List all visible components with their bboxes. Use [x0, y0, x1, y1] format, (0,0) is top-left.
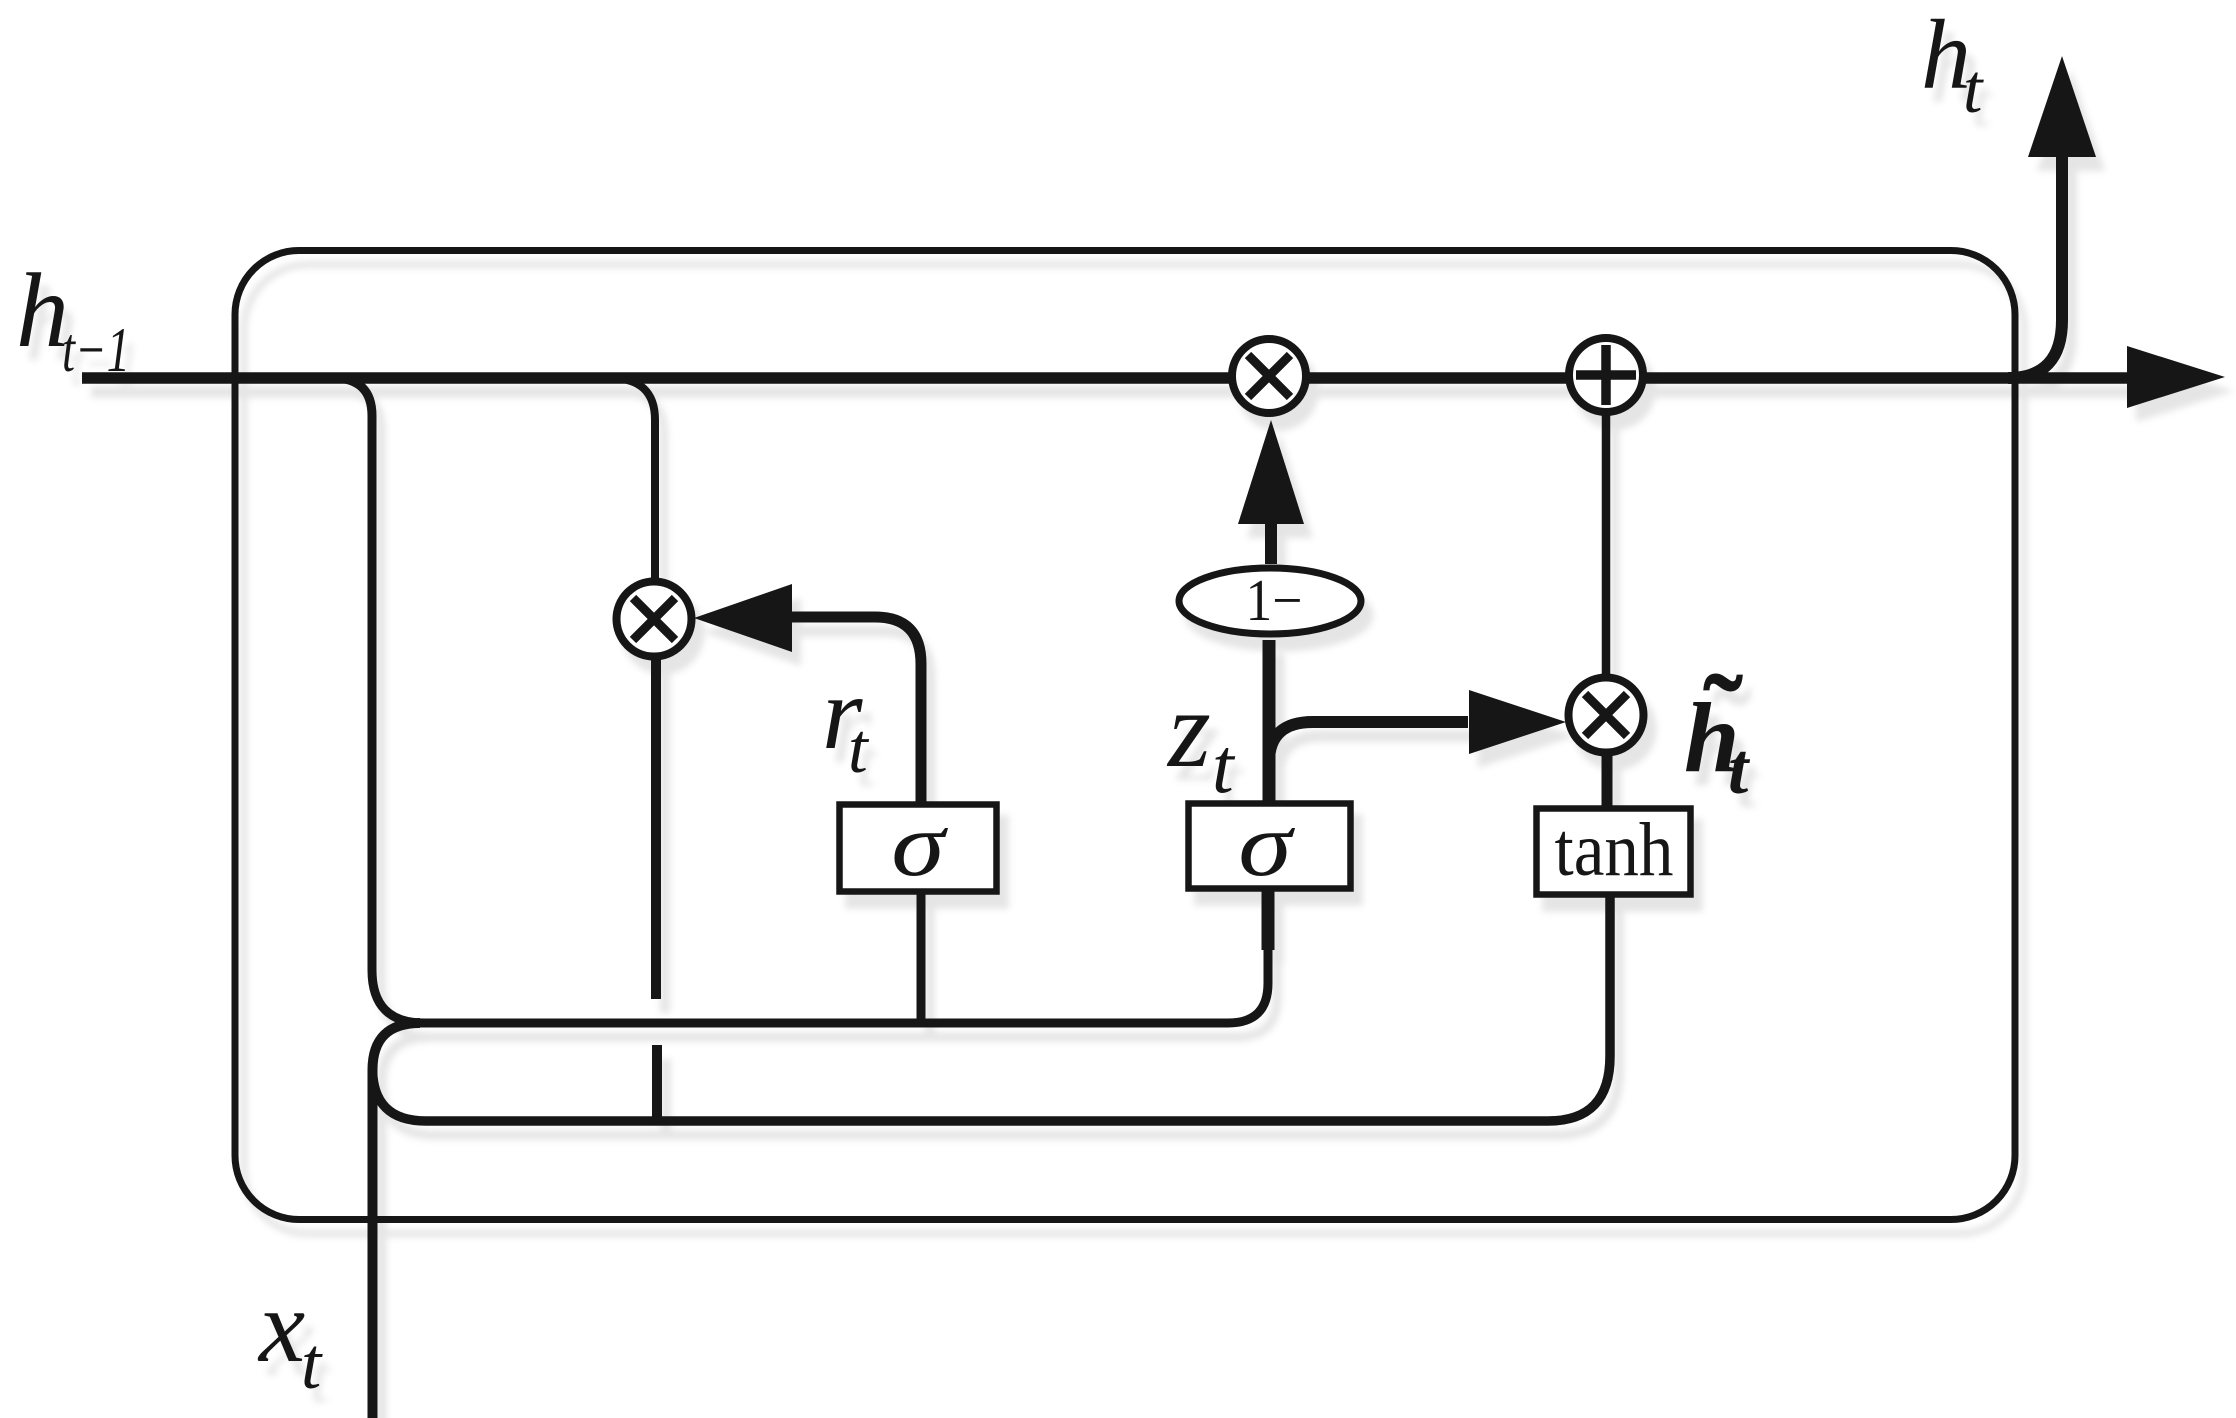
wire: riser from line 1 into reset sigma — [917, 892, 926, 1023]
wire: z_t branch to candidate multiply — [1269, 722, 1468, 762]
wire: interior line 1 feeding sigma gates — [420, 950, 1268, 1023]
wire: x_t input vertical — [373, 1023, 421, 1418]
wire: connector add-circle down to candidate multiply — [1602, 413, 1611, 679]
wire: h(t-1) main recurrent line — [82, 372, 2127, 384]
wire: interior line 2 feeding tanh — [426, 894, 1610, 1121]
wire: h(t-1)/x_t shared branch down into interior line 1 — [333, 378, 424, 1023]
node: reset multiply circle — [617, 582, 692, 657]
svg-text:x: x — [257, 1269, 305, 1384]
svg-text:t−1: t−1 — [62, 314, 130, 385]
wire: z_t thick line from update sigma up to 1- ellipse — [1263, 640, 1276, 806]
svg-text:t: t — [1728, 728, 1751, 809]
GRU cell body (rounded rectangle) — [235, 251, 2015, 1220]
wire: reset product stub (hops over line 1) — [651, 656, 661, 999]
wire: h_t output riser — [2008, 156, 2062, 378]
svg-text:σ: σ — [1238, 794, 1295, 895]
wire: reset product stub into line 2 — [652, 1045, 662, 1119]
svg-text:tanh: tanh — [1555, 808, 1674, 892]
node: update multiply circle on main line — [1232, 339, 1306, 413]
wire: r_t output from reset sigma, curving left — [791, 617, 921, 808]
arrowhead: h(t-1) line output right — [2127, 346, 2225, 408]
wire: h(t-1) branch down to reset multiply — [610, 378, 655, 582]
svg-text:t: t — [1963, 51, 1984, 128]
box: update gate sigma — [1189, 804, 1351, 889]
svg-text:t: t — [301, 1323, 323, 1404]
wire: x_t branch into line 2 — [373, 1068, 427, 1121]
box: reset gate sigma — [840, 805, 997, 892]
arrowhead: r_t into reset multiply — [694, 584, 792, 652]
node: 1- ellipse — [1179, 568, 1361, 634]
node: add circle on main line — [1569, 338, 1643, 412]
box: tanh — [1537, 809, 1691, 895]
wire: thick shaft from 1- ellipse to update multiply — [1265, 522, 1277, 564]
svg-text:1−: 1− — [1246, 567, 1303, 633]
wire: thick riser from line 1 into update sigma — [1262, 889, 1275, 950]
arrowhead: (1-z) up into update multiply — [1238, 420, 1304, 524]
arrowhead: z_t into candidate multiply — [1469, 690, 1566, 754]
svg-text:t: t — [1212, 722, 1236, 809]
arrowhead: h_t output up — [2028, 56, 2096, 157]
svg-text:σ: σ — [891, 794, 948, 895]
svg-text:z: z — [1166, 668, 1211, 790]
wire: connector candidate multiply down to tanh — [1602, 752, 1613, 812]
svg-text:t: t — [848, 710, 870, 788]
node: candidate multiply circle — [1569, 678, 1644, 753]
